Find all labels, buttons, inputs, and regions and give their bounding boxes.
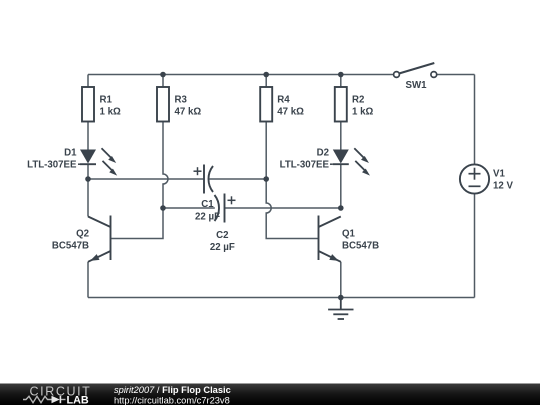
svg-text:SW1: SW1 <box>406 80 428 91</box>
logo resistor zigzag <box>23 396 53 402</box>
wire column D Q1 emitter down <box>340 262 342 298</box>
svg-text:LTL-307EE: LTL-307EE <box>27 160 77 171</box>
wire column C R4 bottom with hop over C2 wire to Q1 base <box>266 122 318 239</box>
svg-text:Q2: Q2 <box>76 229 89 240</box>
voltage source V1 <box>460 164 489 193</box>
svg-text:D2: D2 <box>317 148 329 159</box>
svg-text:BC547B: BC547B <box>52 240 89 251</box>
wire column A Q2 emitter down <box>87 262 89 298</box>
svg-text:12 V: 12 V <box>493 181 513 192</box>
resistor R4 <box>260 87 272 122</box>
svg-text:V1: V1 <box>493 169 505 180</box>
wire column D D2 to node <box>340 164 342 208</box>
resistor R2 <box>335 87 347 122</box>
svg-text:D1: D1 <box>64 148 77 159</box>
label Q2 <box>52 229 89 252</box>
wire column A R1 to D1 <box>87 122 89 150</box>
wire row3 C2 left <box>163 207 215 209</box>
label Q1 <box>342 229 379 252</box>
LED D1 <box>80 148 117 175</box>
label C2 value <box>210 230 235 253</box>
logo diode symbol <box>52 396 60 403</box>
node top of R2 <box>338 72 344 78</box>
wire top rail right of switch <box>437 74 475 76</box>
svg-text:1 kΩ: 1 kΩ <box>100 107 121 118</box>
V1 plus terminal <box>469 168 481 187</box>
Q2 emitter arrow <box>90 254 100 261</box>
capacitor C1 <box>204 165 213 194</box>
resistor R3 <box>157 87 169 122</box>
svg-text:LTL-307EE: LTL-307EE <box>280 160 330 171</box>
svg-text:spirit2007 / Flip Flop Clasic: spirit2007 / Flip Flop Clasic <box>114 385 231 395</box>
wire V1 column top <box>474 75 476 165</box>
wire column A D1 to Q2 collector <box>87 164 89 216</box>
capacitor C2 <box>215 194 225 223</box>
wire column C R4 top <box>265 75 267 88</box>
C1 plus polarity <box>194 167 202 175</box>
svg-text:R2: R2 <box>352 94 364 105</box>
label R4 value <box>277 94 304 117</box>
wire column B R3 with hop over C1 wire <box>111 75 169 239</box>
svg-text:1 kΩ: 1 kΩ <box>352 107 373 118</box>
resistor R1 <box>82 87 94 122</box>
wire column D R2 top <box>340 75 342 88</box>
node top of R4 <box>263 72 269 78</box>
wire row2 C1 left <box>88 178 204 180</box>
svg-text:Q1: Q1 <box>342 229 356 240</box>
label D1 <box>27 148 80 171</box>
wire V1 column bottom <box>474 194 476 298</box>
node C1 / R4 column <box>263 176 269 182</box>
wire top rail left of switch <box>88 74 394 76</box>
svg-text:22 µF: 22 µF <box>210 242 235 253</box>
wire row2 C1 right <box>210 178 267 180</box>
wire column D R2 to D2 <box>340 122 342 150</box>
C2 plus polarity <box>228 196 236 204</box>
node top of R3 <box>160 72 166 78</box>
label D2 <box>280 148 333 171</box>
wire column A R1 top <box>87 75 89 88</box>
node ground junction <box>338 295 344 301</box>
svg-text:C2: C2 <box>216 230 228 241</box>
label R2 value <box>352 94 373 117</box>
switch SW1 <box>394 63 437 77</box>
label R3 value <box>175 94 202 117</box>
transistor Q2 <box>88 216 111 262</box>
wire bottom rail <box>88 297 475 299</box>
label R1 value <box>100 94 121 117</box>
ground <box>328 298 353 320</box>
node D1 cathode / C1 <box>85 176 91 182</box>
wire row3 C2 right <box>225 207 341 209</box>
svg-text:47 kΩ: 47 kΩ <box>277 107 304 118</box>
label V1 value <box>493 169 513 192</box>
svg-text:C1: C1 <box>201 199 214 210</box>
svg-text:BC547B: BC547B <box>342 240 379 251</box>
node D2 cathode / C2 / Q1 collector <box>338 205 344 211</box>
svg-text:LAB: LAB <box>67 394 89 405</box>
LED D2 <box>333 148 370 175</box>
svg-text:http://circuitlab.com/c7r23v8: http://circuitlab.com/c7r23v8 <box>114 395 230 405</box>
svg-text:R1: R1 <box>100 94 113 105</box>
svg-text:47 kΩ: 47 kΩ <box>175 107 202 118</box>
svg-text:R3: R3 <box>175 94 188 105</box>
Q1 emitter arrow <box>329 254 339 261</box>
svg-text:R4: R4 <box>277 94 290 105</box>
node R3 column / C2 <box>160 205 166 211</box>
transistor Q1 <box>319 216 341 262</box>
label C1 value <box>195 199 220 223</box>
